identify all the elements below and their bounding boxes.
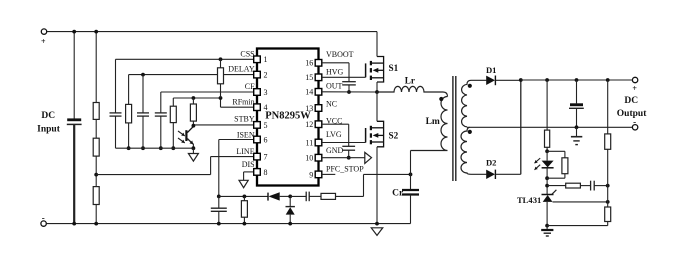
pin 1 square: [254, 56, 261, 63]
node DC- input terminal: [41, 221, 46, 226]
svg-text:DC: DC: [41, 111, 55, 121]
transformer secondary top winding: [462, 80, 487, 127]
svg-text:DELAY: DELAY: [228, 64, 255, 73]
transistor Q2 S2 MOSFET: [365, 128, 367, 143]
pin 9 square: [315, 171, 322, 178]
pin 10 square: [315, 154, 322, 161]
svg-text:S1: S1: [389, 63, 399, 73]
diode D4 clamp to rail: [289, 196, 291, 206]
pin 6 square: [254, 136, 261, 143]
svg-text:+: +: [632, 84, 637, 93]
pin 11 square: [315, 139, 322, 146]
resistor opto feed R10: [545, 78, 549, 82]
svg-text:DC: DC: [624, 96, 638, 106]
diode D3 left-pointing: [267, 193, 269, 201]
capacitor output electrolytic C9: [575, 78, 579, 82]
pin 14 square: [315, 89, 322, 96]
wire signal ground bus: [116, 147, 194, 149]
svg-text:11: 11: [305, 138, 313, 147]
resistor DELAY R4: [128, 75, 130, 105]
ground TL431: [546, 226, 548, 230]
op-amp U1 PN8295W body: [257, 49, 319, 186]
node DC- output terminal: [632, 125, 637, 130]
pin 8 square: [254, 169, 261, 176]
wire TL431 cathode: [546, 178, 548, 194]
wire VCC pin12: [322, 123, 349, 125]
capacitor VCC C8: [342, 145, 355, 147]
wire RFmin net pin4: [221, 106, 254, 108]
transformer core: [452, 76, 454, 181]
svg-text:14: 14: [305, 88, 313, 97]
svg-text:16: 16: [305, 59, 313, 68]
svg-text:PFC_STOP: PFC_STOP: [326, 164, 364, 173]
svg-text:D1: D1: [486, 65, 497, 75]
svg-text:CSS: CSS: [240, 50, 254, 59]
wire centre tap: [467, 126, 635, 128]
capacitor C6 series: [290, 195, 306, 197]
wire PFC_STOP riser: [363, 174, 365, 196]
capacitor bootstrap C7: [342, 81, 356, 83]
svg-text:S2: S2: [389, 131, 399, 141]
secondary bottom polarity dot: [468, 130, 472, 134]
capacitor compensation C10: [580, 185, 590, 187]
node DC+ output terminal: [632, 77, 637, 82]
node DC+ input terminal: [41, 29, 46, 34]
wire S1 source to OUT node: [376, 82, 378, 92]
svg-text:D2: D2: [486, 158, 497, 168]
pin 15 square: [315, 74, 322, 81]
svg-text:5: 5: [264, 121, 268, 130]
svg-text:4: 4: [264, 103, 268, 112]
resistor ISEN R8: [243, 195, 247, 199]
capacitor ISEN C5: [218, 196, 220, 208]
svg-text:ISEN: ISEN: [237, 131, 255, 140]
wire S1 drain to top rail: [376, 32, 378, 57]
ground GND pin10 arrow: [365, 152, 372, 163]
inductor Lm primary winding: [411, 97, 448, 151]
wire ISEN net pin6: [219, 139, 254, 141]
pin 2 square: [254, 71, 261, 78]
wire ISEN sense node: [219, 195, 268, 197]
wire HVG pin15: [322, 76, 366, 78]
svg-text:8: 8: [264, 168, 268, 177]
capacitor Cr: [410, 151, 412, 191]
wire CF net pin3: [161, 91, 254, 93]
svg-text:10: 10: [305, 154, 313, 163]
svg-text:2: 2: [264, 71, 268, 80]
pin 7 square: [254, 153, 261, 160]
resistor divider upper R13: [606, 78, 610, 82]
pin 13 square: [315, 105, 322, 112]
capacitor DELAY C3: [142, 75, 144, 113]
ground opto emitter: [192, 148, 194, 153]
svg-text:HVG: HVG: [326, 67, 344, 76]
svg-text:VBOOT: VBOOT: [326, 50, 354, 59]
regulator TL431 U3: [542, 194, 554, 196]
resistor divider lower R14: [605, 207, 611, 222]
wire S2 source to bottom rail: [376, 147, 378, 224]
resistor RFmin-opto R7: [192, 98, 194, 104]
ground S2 source: [371, 228, 383, 236]
svg-text:Lm: Lm: [426, 117, 440, 127]
resistor R9 series: [321, 193, 336, 199]
capacitor CSS C2: [110, 112, 122, 114]
pin 5 square: [254, 122, 261, 129]
pin 12 square: [315, 121, 322, 128]
transistor Q1 S1 MOSFET: [365, 63, 367, 77]
wire PFC_STOP pin9 stub: [322, 173, 336, 175]
wire rectifier bus: [520, 80, 522, 174]
svg-text:CF: CF: [245, 82, 255, 91]
svg-text:TL431: TL431: [517, 195, 541, 205]
svg-text:+: +: [41, 37, 46, 46]
wire VBOOT pin16: [322, 62, 349, 64]
wire top rail +: [47, 31, 377, 33]
wire LVG pin11: [322, 142, 366, 144]
transformer secondary bottom winding: [461, 127, 486, 174]
wire output + rail: [521, 79, 635, 81]
svg-text:13: 13: [305, 104, 313, 113]
wire bottom rail -: [46, 223, 410, 225]
wire S1-S2 midpoint to S2 drain: [376, 92, 378, 121]
svg-text:7: 7: [264, 153, 268, 162]
wire LINE net pin7: [211, 156, 254, 158]
svg-text:RFmin: RFmin: [232, 98, 254, 107]
svg-text:Cr: Cr: [392, 189, 404, 199]
svg-text:Input: Input: [37, 125, 61, 135]
pin 16 square: [315, 60, 322, 67]
svg-text:-: -: [42, 213, 45, 223]
svg-text:LVG: LVG: [326, 130, 342, 139]
resistor LED parallel R11: [547, 150, 565, 152]
svg-text:STBY: STBY: [234, 115, 255, 124]
wire STBY net pin5: [193, 124, 253, 126]
svg-text:DIS: DIS: [242, 160, 255, 169]
svg-text:9: 9: [309, 170, 313, 179]
resistor divider R1 top: [95, 32, 97, 103]
wire GND pin10: [322, 157, 365, 159]
svg-text:LINE: LINE: [236, 147, 254, 156]
LED optocoupler diode: [546, 151, 548, 160]
opto light arrows: [178, 131, 185, 136]
resistor divider R3 bottom: [93, 187, 99, 205]
wire OUT pin14: [322, 91, 377, 93]
wire feedback ground return: [547, 225, 608, 227]
primary polarity dot: [439, 97, 443, 101]
svg-text:NC: NC: [326, 99, 337, 108]
resistor divider R2 middle: [95, 119, 97, 138]
diode D1: [486, 76, 495, 85]
svg-text:6: 6: [264, 135, 268, 144]
secondary top polarity dot: [468, 84, 472, 88]
node LINE tap: [95, 156, 97, 187]
svg-text:OUT: OUT: [326, 81, 343, 90]
optocoupler transistor U2: [185, 130, 187, 141]
wire DELAY net pin2: [129, 74, 254, 76]
resistor CSS-RFmin R5: [220, 59, 222, 68]
wire TL431 ref: [553, 201, 608, 203]
svg-text:GND: GND: [326, 146, 344, 155]
ground DIS pin8: [239, 180, 248, 187]
capacitor input bulk C1: [73, 32, 75, 119]
svg-text:Output: Output: [617, 109, 647, 119]
ground earth output: [576, 127, 578, 136]
inductor Lr: [377, 86, 448, 96]
resistor RFmin R6: [172, 98, 174, 106]
pin 4 square: [254, 104, 261, 111]
svg-text:15: 15: [305, 73, 313, 82]
wire CSS net pin1: [116, 58, 254, 60]
LED light arrows: [535, 158, 541, 163]
pin 3 square: [254, 89, 261, 96]
svg-text:3: 3: [264, 88, 268, 97]
svg-text:12: 12: [305, 120, 313, 129]
resistor compensation R12: [547, 185, 566, 187]
svg-text:Lr: Lr: [405, 76, 415, 86]
wire DIS net pin8: [244, 171, 254, 173]
diode D2: [486, 170, 495, 179]
svg-text:1: 1: [264, 55, 268, 64]
capacitor CF C4: [160, 92, 162, 113]
